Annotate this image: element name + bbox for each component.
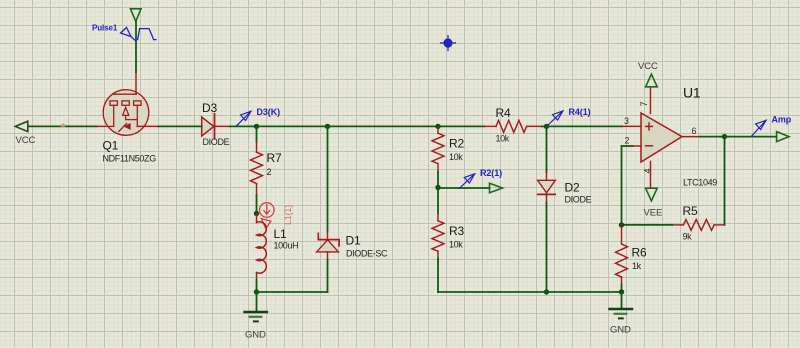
D3 anode wire (green) — [159, 125, 202, 127]
terminal R2(1) (open arrow) — [490, 183, 503, 192]
U1 pin 4 (V- red pin) — [650, 162, 652, 189]
svg-text:R2(1): R2(1) — [480, 168, 502, 178]
svg-text:10k: 10k — [496, 134, 510, 144]
wire bottom-left bus (L1 to D1 anode) — [257, 291, 328, 293]
junction at D1 top — [325, 124, 330, 129]
wire node R4(1) to op-amp pin 3 — [547, 125, 623, 127]
svg-text:R4: R4 — [496, 106, 511, 120]
svg-text:100uH: 100uH — [274, 241, 299, 251]
junction R2/R3 (node R2(1)) — [435, 185, 440, 190]
U1 pin 6 (output red pin) — [682, 136, 700, 138]
current probe L1(1) — [260, 203, 275, 229]
svg-text:D3: D3 — [202, 101, 217, 115]
junction D2 bottom — [544, 289, 549, 294]
svg-text:R6: R6 — [632, 246, 647, 260]
svg-text:NDF11N50ZG: NDF11N50ZG — [103, 154, 157, 164]
terminal VCC (left input terminal) — [15, 121, 35, 146]
junction inverting node (pin2/R5/R6) — [619, 222, 624, 227]
wire inverting node to U1 pin 2 — [622, 145, 634, 147]
resistor R3 — [432, 188, 464, 293]
svg-text:4: 4 — [643, 168, 653, 173]
inductor L1 — [257, 214, 299, 293]
svg-text:2: 2 — [625, 136, 630, 146]
svg-text:1k: 1k — [632, 261, 642, 271]
svg-text:6: 6 — [692, 126, 697, 136]
ground (left GND) — [245, 292, 268, 341]
svg-text:Q1: Q1 — [103, 139, 119, 153]
diode D2 — [538, 126, 592, 292]
D3 cathode pin (red) — [215, 125, 230, 127]
svg-text:DIODE: DIODE — [565, 195, 592, 205]
net label Amp — [752, 115, 792, 137]
junction L1 bottom / GND — [254, 289, 259, 294]
diode D1 DIODE-SC (Schottky) — [317, 126, 388, 292]
svg-text:10k: 10k — [449, 240, 463, 250]
resistor R7 — [251, 126, 282, 213]
svg-text:DIODE: DIODE — [203, 137, 230, 147]
svg-text:R7: R7 — [267, 151, 282, 165]
U1 pin 3 (red pin into +) — [622, 125, 641, 127]
wire bottom-middle bus — [438, 291, 622, 293]
wire node D3(K) to node D1 — [257, 125, 328, 127]
svg-text:VCC: VCC — [16, 135, 36, 146]
terminal input (top, pulse input) — [130, 9, 141, 22]
svg-text:VEE: VEE — [644, 208, 663, 219]
junction R4 right (node R4(1)) — [544, 124, 549, 129]
wire node D1 to node R2 — [328, 125, 439, 127]
ground (right GND) — [610, 292, 633, 336]
op-amp U1 LTC1049 — [641, 85, 717, 188]
svg-text:3: 3 — [624, 116, 629, 126]
svg-text:L1(1): L1(1) — [283, 205, 293, 225]
terminal Amp (output arrow) — [777, 132, 789, 142]
svg-text:R5: R5 — [683, 204, 698, 218]
svg-text:L1: L1 — [274, 227, 287, 241]
svg-text:D2: D2 — [565, 181, 580, 195]
wire output node down to R5 — [724, 137, 726, 225]
svg-text:10k: 10k — [449, 152, 463, 162]
resistor R2 — [432, 126, 464, 187]
svg-text:DIODE-SC: DIODE-SC — [346, 249, 388, 259]
Q1 source pin (right red pin) — [137, 125, 158, 127]
wire input terminal to Q1 gate — [135, 21, 137, 72]
net label D3(K) — [237, 107, 280, 126]
net label R2(1) — [460, 168, 502, 188]
svg-text:R2: R2 — [449, 137, 464, 151]
svg-text:LTC1049: LTC1049 — [683, 178, 717, 188]
svg-text:GND: GND — [610, 325, 631, 336]
junction R6 bottom / GND — [619, 289, 624, 294]
svg-text:R4(1): R4(1) — [569, 107, 591, 117]
node marker (faint red dot on input wire) — [61, 123, 65, 127]
terminal VEE (op-amp negative supply) — [646, 188, 658, 201]
svg-text:D3(K): D3(K) — [257, 107, 281, 117]
diode D3 — [202, 114, 215, 139]
svg-text:D1: D1 — [346, 234, 361, 248]
svg-text:U1: U1 — [683, 85, 701, 101]
svg-text:R3: R3 — [449, 224, 464, 238]
net label R4(1) — [548, 107, 591, 125]
wire node R2(1) stub — [438, 187, 490, 189]
Q1 drain pin (left red pin) — [97, 125, 105, 127]
svg-text:GND: GND — [245, 330, 266, 341]
svg-text:9k: 9k — [683, 232, 693, 242]
svg-text:Pulse1: Pulse1 — [92, 24, 118, 33]
svg-text:2: 2 — [267, 167, 272, 177]
wire VCC terminal to Q1 drain — [28, 125, 97, 127]
U1 pin 7 (V+ red pin) — [650, 87, 652, 114]
resistor R4 — [438, 106, 547, 144]
node D3(K) junction — [254, 124, 259, 129]
svg-text:VCC: VCC — [638, 61, 658, 72]
Q1 gate pin (red, from top) — [135, 72, 137, 94]
generator Pulse1 (pulse source marker) — [121, 27, 156, 41]
wire D3 cathode to node D3(K) — [230, 125, 257, 127]
wire output to node Amp — [700, 136, 725, 138]
svg-text:Amp: Amp — [772, 115, 792, 125]
junction at R2 top — [435, 124, 440, 129]
resistor R5 — [622, 204, 725, 242]
resistor R6 — [616, 225, 647, 292]
wire output node to Amp terminal — [725, 136, 777, 138]
junction output node — [722, 134, 727, 139]
origin marker — [441, 36, 456, 51]
wire pin2 node down to feedback node — [621, 146, 623, 225]
U1 pin 2 (red pin into -) — [633, 145, 641, 147]
terminal VCC (op-amp supply) — [646, 74, 658, 87]
junction R7 bottom / L1 top — [254, 211, 259, 216]
transistor Q1 NDF11N50ZG (MOSFET in circle) — [103, 90, 149, 136]
svg-text:7: 7 — [639, 101, 649, 106]
